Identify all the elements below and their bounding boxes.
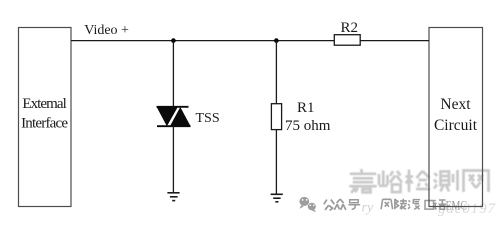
small watermark char 口	[425, 201, 434, 210]
external interface box	[19, 28, 72, 207]
wire: top rail right segment	[360, 40, 429, 42]
big gray watermark char 峪	[379, 171, 402, 193]
svg-text:EMC: EMC	[446, 199, 468, 213]
node junction dot B (R1 branch)	[274, 38, 279, 43]
node junction dot A (TSS branch)	[171, 38, 176, 43]
wire: top rail left segment	[71, 40, 334, 42]
small watermark char 话	[433, 200, 446, 209]
svg-text:R2: R2	[341, 20, 359, 36]
wire: TSS branch down	[172, 41, 174, 107]
svg-text:Video +: Video +	[84, 23, 129, 38]
big gray watermark char 检	[406, 170, 431, 193]
svg-text:75 ohm: 75 ohm	[285, 118, 331, 134]
small watermark char 号	[348, 200, 360, 209]
next circuit box	[429, 28, 483, 207]
big gray watermark char 网	[464, 171, 489, 193]
small watermark char 陵	[395, 199, 407, 210]
svg-text:R1: R1	[297, 100, 315, 116]
big gray watermark char 嘉	[349, 169, 376, 193]
TSS suppressor symbol	[157, 107, 191, 126]
wire: R1 branch down	[275, 41, 277, 104]
svg-text:ry: ry	[362, 201, 374, 216]
small watermark char 公	[324, 200, 334, 211]
svg-text:Interface: Interface	[21, 116, 68, 132]
resistor R2 body	[334, 35, 360, 46]
resistor R1 body	[271, 104, 281, 130]
small watermark char 渡	[408, 200, 420, 210]
ground (R1)	[271, 194, 283, 202]
svg-text:TSS: TSS	[196, 111, 220, 126]
svg-text:Extemal: Extemal	[22, 96, 67, 112]
wechat icon	[299, 197, 316, 212]
wire: TSS to ground	[172, 126, 174, 193]
big gray watermark char 测	[434, 170, 458, 192]
small watermark char 众	[334, 199, 346, 210]
wire: R1 to ground	[275, 130, 277, 195]
small watermark char 风	[381, 199, 393, 209]
ground (TSS)	[167, 193, 179, 201]
svg-text:Next: Next	[440, 96, 471, 113]
svg-text:Circuit: Circuit	[434, 117, 478, 134]
